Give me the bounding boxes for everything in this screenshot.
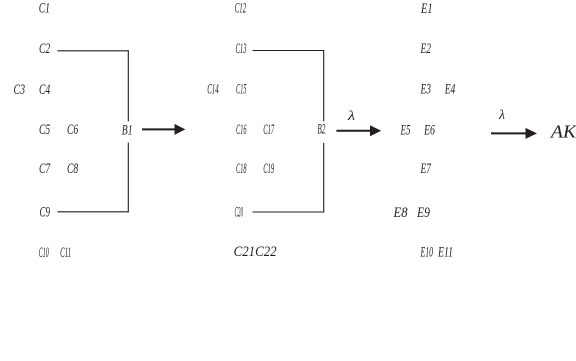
svg-text:C6: C6 [67,122,79,138]
svg-text:C7: C7 [39,161,51,177]
svg-text:C12: C12 [235,1,247,17]
svg-text:E7: E7 [420,161,432,177]
wire from C2 to bus 1 [58,50,129,52]
svg-text:C9: C9 [40,205,51,221]
svg-text:C10: C10 [39,245,49,261]
bus 2 upper segment [323,50,325,121]
svg-text:AK: AK [550,122,576,142]
svg-text:C15: C15 [236,82,247,98]
svg-text:E4: E4 [444,82,456,98]
svg-text:C2: C2 [39,41,51,57]
svg-text:C21C22: C21C22 [234,244,277,260]
svg-text:E9: E9 [416,205,430,221]
wire from C13 to bus 2 [253,50,325,52]
svg-text:C8: C8 [67,161,79,177]
bus 1 upper segment [127,50,129,121]
wire from C20 to bus 2 [253,211,325,213]
svg-text:C14: C14 [207,82,219,98]
arrow 1 [142,124,185,135]
svg-text:C11: C11 [60,245,71,261]
svg-text:E1: E1 [420,1,432,17]
svg-text:E2: E2 [420,41,431,57]
svg-text:C19: C19 [263,161,274,177]
svg-text:C13: C13 [236,41,247,57]
svg-text:B2: B2 [317,122,325,138]
svg-text:C3: C3 [14,82,26,98]
svg-text:E5: E5 [400,122,411,138]
svg-text:C18: C18 [236,161,247,177]
bus 1 lower segment [127,143,129,213]
svg-text:λ: λ [498,108,505,123]
arrow 3 [491,128,537,139]
svg-text:C1: C1 [39,1,50,17]
arrow 2 [336,125,381,136]
svg-text:E6: E6 [423,122,435,138]
bus 2 lower segment [323,143,325,213]
svg-text:E11: E11 [437,245,453,261]
svg-text:E3: E3 [420,82,431,98]
wire from C9 to bus 1 [58,211,129,213]
svg-text:λ: λ [347,109,355,124]
svg-text:C4: C4 [39,82,51,98]
svg-text:E10: E10 [420,245,433,261]
svg-text:E8: E8 [393,205,408,221]
svg-text:B1: B1 [122,123,133,139]
svg-text:C16: C16 [236,122,247,138]
svg-text:C5: C5 [39,122,51,138]
svg-text:C20: C20 [235,205,244,221]
svg-text:C17: C17 [263,122,275,138]
